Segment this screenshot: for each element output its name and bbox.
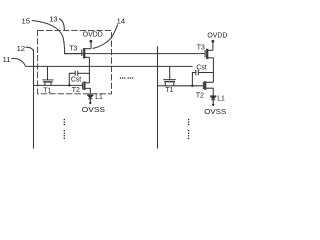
wire node leg left (T3 source to T2 drain) (88, 57, 90, 83)
node OVSS right (dot) (212, 104, 214, 106)
OVSS label right (204, 109, 226, 116)
svg-text:L1: L1 (95, 94, 103, 101)
leader 13 (59, 19, 65, 31)
svg-text:Cst: Cst (196, 65, 206, 72)
svg-text:T2: T2 (196, 93, 204, 100)
label L1 right (217, 95, 225, 102)
gate line (net 15) (64, 53, 205, 55)
label T1 left (43, 87, 51, 94)
capacitor Cst left (69, 71, 89, 86)
label 14 (117, 16, 125, 25)
svg-text:OVDD: OVDD (83, 32, 103, 39)
node OVSS left (dot) (89, 102, 91, 104)
transistor T1 right (163, 66, 176, 85)
svg-text:OVDD: OVDD (207, 33, 227, 40)
data line right (157, 46, 159, 148)
wire node leg right (212, 58, 214, 83)
transistor T2 left (82, 81, 90, 95)
LED L1 right (210, 96, 216, 104)
OVDD label left (83, 32, 103, 39)
node junction dot left (68, 84, 70, 86)
transistor T3 left (64, 48, 91, 59)
wire OVDD drop right (212, 41, 214, 50)
wire W1 left (data to T2 gate) (34, 84, 83, 86)
wire OVDD drop left (90, 41, 92, 48)
svg-text:L1: L1 (217, 95, 225, 102)
svg-text:OVSS: OVSS (204, 109, 226, 116)
label L1 left (95, 94, 103, 101)
label 11 (3, 55, 11, 64)
scan line (net 11) (25, 65, 193, 67)
label T1 right (165, 87, 173, 94)
transistor T1 left (42, 66, 53, 85)
svg-text:T1: T1 (43, 87, 51, 94)
svg-text:OVSS: OVSS (82, 107, 106, 114)
svg-text:T3: T3 (197, 44, 205, 51)
OVSS label left (82, 107, 106, 114)
capacitor Cst right (192, 70, 213, 86)
svg-text:12: 12 (17, 44, 25, 53)
label 13 (49, 15, 57, 24)
leader 15 (32, 21, 65, 54)
svg-text:11: 11 (3, 55, 11, 64)
dashed pixel box 13 (38, 30, 112, 93)
svg-text:Cst: Cst (71, 76, 81, 83)
node junction dot right (191, 85, 193, 87)
label T2 left (72, 87, 80, 94)
label T2 right (196, 93, 204, 100)
label T3 left (69, 46, 77, 53)
transistor T3 right (205, 49, 213, 59)
LED L1 left (87, 95, 93, 102)
svg-text:T1: T1 (165, 87, 173, 94)
vertical ellipsis left column (64, 119, 66, 139)
OVDD label right (207, 33, 227, 40)
svg-text:T2: T2 (72, 87, 80, 94)
label 12 (17, 44, 25, 53)
vertical ellipsis right column (188, 119, 190, 139)
svg-text:14: 14 (117, 16, 125, 25)
leader 12 (26, 47, 34, 51)
svg-text:15: 15 (22, 16, 30, 25)
svg-text:13: 13 (49, 15, 57, 24)
label 15 (22, 16, 30, 25)
svg-text:T3: T3 (69, 46, 77, 53)
leader 11 (11, 58, 25, 65)
leader 14 (93, 24, 118, 48)
label T3 right (197, 44, 205, 51)
wire W1 right (158, 85, 204, 87)
label Cst right (196, 65, 206, 72)
node OVDD right (dot) (212, 40, 215, 43)
transistor T2 right (203, 81, 213, 96)
data line left (net 12) (33, 50, 35, 149)
node OVDD left (dot) (90, 40, 93, 43)
label Cst left (71, 76, 81, 83)
ellipsis dots between pixels (120, 77, 134, 79)
